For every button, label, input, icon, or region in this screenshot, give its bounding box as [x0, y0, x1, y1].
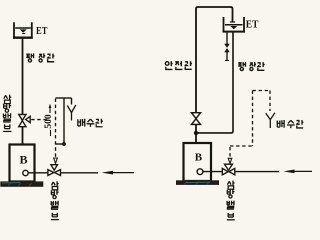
svg-text:B: B: [195, 151, 203, 163]
svg-text:ET: ET: [36, 26, 47, 37]
svg-text:500: 500: [44, 114, 54, 129]
svg-text:B: B: [20, 153, 28, 167]
svg-text:ET: ET: [246, 19, 259, 30]
